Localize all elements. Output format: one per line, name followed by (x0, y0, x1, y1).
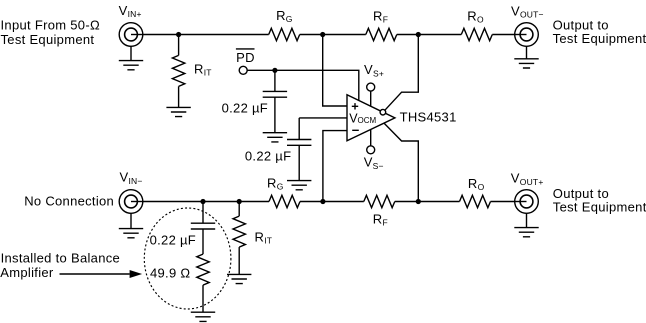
svg-text:RG: RG (276, 8, 293, 24)
svg-text:Input From 50-Ω: Input From 50-Ω (1, 17, 100, 32)
svg-text:VIN+: VIN+ (119, 3, 142, 19)
svg-text:THS4531: THS4531 (400, 109, 457, 124)
svg-text:VS−: VS− (364, 155, 384, 171)
svg-text:PD: PD (236, 50, 255, 65)
svg-text:Test Equipment: Test Equipment (553, 31, 646, 46)
svg-text:Test Equipment: Test Equipment (553, 200, 646, 215)
svg-text:0.22 µF: 0.22 µF (222, 101, 268, 116)
svg-text:No Connection: No Connection (24, 193, 114, 208)
svg-text:VOUT+: VOUT+ (511, 171, 544, 187)
svg-text:RG: RG (267, 176, 284, 192)
svg-text:VS+: VS+ (364, 62, 384, 78)
svg-text:Amplifier: Amplifier (0, 265, 54, 280)
svg-text:RF: RF (373, 9, 388, 25)
svg-text:0.22 µF: 0.22 µF (245, 148, 291, 163)
svg-text:RO: RO (468, 176, 485, 192)
svg-text:0.22 µF: 0.22 µF (150, 232, 196, 247)
svg-text:RO: RO (467, 8, 484, 24)
svg-text:RIT: RIT (255, 230, 273, 246)
svg-text:Installed to Balance: Installed to Balance (1, 251, 120, 266)
svg-text:49.9 Ω: 49.9 Ω (150, 265, 190, 280)
svg-text:VOCM: VOCM (349, 111, 376, 125)
svg-text:RIT: RIT (194, 61, 212, 77)
svg-text:Test Equipment: Test Equipment (1, 32, 95, 47)
svg-text:VOUT−: VOUT− (511, 4, 544, 20)
svg-text:VIN−: VIN− (120, 170, 143, 186)
svg-text:RF: RF (373, 212, 388, 228)
